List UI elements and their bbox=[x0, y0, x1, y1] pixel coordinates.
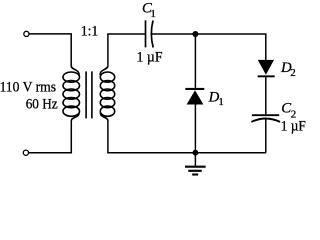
ground bar 1 bbox=[185, 166, 206, 168]
wire D2 to C2 bbox=[265, 77, 267, 114]
wire secondary top to C1 bbox=[108, 34, 145, 66]
transformer T1 primary coil bbox=[63, 66, 80, 121]
svg-text:2: 2 bbox=[290, 67, 296, 79]
terminal top-left bbox=[24, 31, 29, 36]
svg-text:C: C bbox=[281, 100, 291, 116]
ground node junction dot bbox=[193, 150, 199, 156]
svg-text:60 Hz: 60 Hz bbox=[26, 97, 58, 113]
transformer core bbox=[85, 71, 87, 118]
svg-text:1 µF: 1 µF bbox=[281, 118, 306, 134]
capacitor C2 top plate bbox=[252, 114, 279, 116]
svg-text:1 µF: 1 µF bbox=[137, 50, 163, 66]
svg-text:110 V rms: 110 V rms bbox=[0, 79, 56, 95]
wire top-left to primary bbox=[29, 34, 71, 66]
terminal bottom-left bbox=[23, 150, 28, 155]
transformer T1 secondary coil bbox=[100, 66, 115, 121]
ground bar 3 bbox=[192, 173, 198, 175]
node A junction dot bbox=[192, 31, 198, 37]
capacitor C1 curved plate bbox=[151, 21, 153, 48]
svg-text:1: 1 bbox=[218, 96, 224, 108]
diode D1 bbox=[185, 88, 204, 105]
diode D2 bbox=[258, 60, 275, 77]
capacitor C2 curved plate bbox=[251, 119, 280, 122]
wire bottom-left to primary bbox=[29, 120, 72, 152]
capacitor C1 left plate bbox=[145, 20, 147, 47]
svg-text:1:1: 1:1 bbox=[81, 23, 99, 39]
wire C2 to bottom rail bbox=[265, 119, 267, 153]
wire D1 to ground rail bbox=[194, 105, 196, 153]
wire node A down to D1 bbox=[194, 34, 196, 88]
svg-text:1: 1 bbox=[150, 8, 156, 20]
wire secondary bottom rail bbox=[108, 120, 266, 152]
wire C1 to node A and top-right corner bbox=[152, 34, 266, 60]
ground bar 2 bbox=[188, 170, 201, 172]
ground stub bbox=[194, 153, 196, 166]
